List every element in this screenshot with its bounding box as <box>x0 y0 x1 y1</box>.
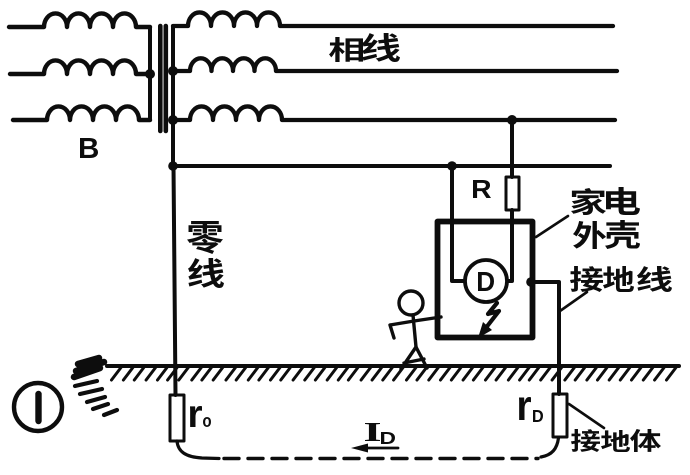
earth return path (right curve) <box>541 438 559 457</box>
person arms <box>390 317 441 338</box>
label r0 <box>190 406 202 427</box>
junction node primary P2 <box>145 69 155 79</box>
earth surface line <box>107 364 679 368</box>
label B (transformer) <box>80 138 98 158</box>
label rD <box>519 397 531 420</box>
earth electrode rD <box>553 394 567 437</box>
label D motor <box>478 272 494 291</box>
current ID label <box>365 423 380 441</box>
wire secondary bus <box>171 26 175 166</box>
wire phase tap down to resistor R <box>510 120 514 177</box>
figure number badge circled 1 <box>14 383 62 431</box>
transformer B primary winding coil P3 <box>13 106 150 120</box>
label 接地体 earth electrode <box>571 429 600 452</box>
junction node secondary S2 <box>168 66 178 76</box>
transformer earth scribble <box>74 358 104 377</box>
earth resistor r0 <box>170 395 184 441</box>
transformer B secondary winding coil S1 / phase line top <box>173 12 613 26</box>
earth return path dashed (left curve) <box>177 441 219 459</box>
leader line to case label <box>536 216 568 237</box>
wire primary bus <box>148 27 152 120</box>
appliance case box 家电外壳 <box>438 222 533 338</box>
transformer core bars <box>160 26 166 131</box>
transformer B secondary winding coil S3 / phase line bottom <box>173 106 615 120</box>
label 零线 neutral <box>187 221 223 254</box>
earth return path dashed line <box>224 457 538 460</box>
motor circle D <box>465 260 507 302</box>
label R <box>473 180 491 198</box>
label 相线 phase-line <box>329 37 363 62</box>
junction node phase C tap <box>507 115 517 125</box>
wire neutral drop to earth r0 <box>174 166 176 395</box>
label 家电外壳 appliance case <box>571 188 606 215</box>
label 接地线 grounding wire <box>570 266 603 292</box>
person legs <box>401 347 427 369</box>
person body <box>413 315 416 347</box>
wire neutral tap down to motor left terminal <box>452 166 465 281</box>
grounding wire 接地线 from case to earth <box>531 282 559 394</box>
transformer B secondary winding coil S2 / phase line mid <box>173 58 617 71</box>
fault lightning bolt to case <box>485 303 499 329</box>
leader line to grounding wire label <box>560 292 587 311</box>
leader line to earth electrode label <box>569 404 604 428</box>
person touching case <box>399 291 423 315</box>
lightning arrowhead <box>478 322 492 338</box>
neutral line <box>173 164 610 168</box>
wire R to motor right terminal <box>508 210 512 281</box>
earth hatching <box>112 368 677 381</box>
resistor R <box>506 177 519 210</box>
junction node case to ground wire <box>526 277 536 287</box>
transformer B primary winding coil P1 <box>9 13 150 27</box>
current ID arrow <box>362 447 398 450</box>
junction node neutral tap <box>447 161 457 171</box>
junction node neutral at bus <box>168 161 178 171</box>
transformer B primary winding coil P2 <box>10 60 150 74</box>
junction node secondary S3 <box>168 115 178 125</box>
